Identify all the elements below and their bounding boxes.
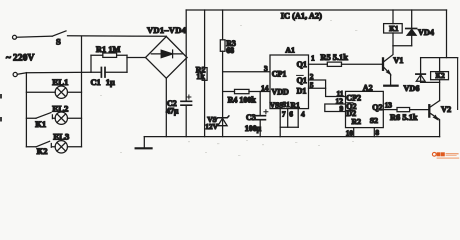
wire: top feed to switch bbox=[17, 36, 53, 37]
svg-text:K1: K1 bbox=[35, 119, 46, 129]
svg-text:A1: A1 bbox=[285, 45, 295, 54]
resistor R6 bbox=[397, 108, 410, 112]
capacitor C1 bbox=[91, 71, 127, 73]
switch S bbox=[52, 31, 66, 36]
node: mains bottom terminal bbox=[13, 72, 17, 76]
wire: right edge stub bbox=[457, 58, 459, 110]
resistor R5 bbox=[327, 62, 341, 66]
svg-text:VD6: VD6 bbox=[404, 84, 420, 93]
wire: R5 to V1 base bbox=[342, 63, 384, 65]
svg-text:13: 13 bbox=[385, 101, 393, 110]
resistor R4 bbox=[223, 91, 270, 93]
wire: Q1 to R5 bbox=[309, 63, 328, 65]
resistor R3 bbox=[222, 10, 224, 118]
lamp EL2 bbox=[55, 112, 67, 124]
svg-text:6: 6 bbox=[289, 109, 293, 118]
pin 7 6 4 stubs bbox=[280, 109, 298, 128]
svg-text:R5 5.1k: R5 5.1k bbox=[320, 53, 348, 62]
svg-text:K2: K2 bbox=[436, 72, 446, 80]
svg-text:CP1: CP1 bbox=[272, 69, 287, 78]
edge smudges bbox=[0, 94, 2, 99]
wire: R6 to V2 base bbox=[410, 109, 430, 111]
resistor R1 bbox=[91, 54, 127, 56]
wire: R1/C1 loop verticals bbox=[91, 55, 127, 72]
bridge rectifier VD1-VD4 bbox=[146, 37, 188, 79]
wire: Q2bar/D2 tie bracket bbox=[325, 104, 346, 112]
wire: rail end down bbox=[446, 10, 448, 58]
svg-text:1k: 1k bbox=[196, 72, 205, 81]
ground bbox=[143, 137, 145, 148]
wire: CP1 input (pin 3) bbox=[223, 71, 270, 73]
wire: lamp right rail bbox=[81, 36, 83, 147]
wire: bridge bottom to ground rail bbox=[165, 78, 167, 136]
svg-text:R4 100k: R4 100k bbox=[228, 96, 257, 105]
svg-text:R2: R2 bbox=[352, 117, 362, 126]
wire: bridge+ vertical bbox=[185, 10, 188, 101]
wire: Q1bar (pin2) to CP2 bbox=[309, 80, 346, 97]
svg-text:9: 9 bbox=[340, 104, 344, 113]
svg-text:VD4: VD4 bbox=[418, 28, 434, 37]
watermark logo bbox=[432, 152, 459, 159]
svg-text:C3: C3 bbox=[246, 113, 256, 122]
svg-text:EL2: EL2 bbox=[52, 104, 69, 114]
zener diode VS 12V bbox=[216, 116, 229, 120]
wire: loop to bridge left corner bbox=[127, 57, 146, 59]
capacitor C2 bbox=[181, 101, 192, 105]
wire: EL2 branch bbox=[26, 117, 81, 119]
svg-text:Q1: Q1 bbox=[297, 76, 307, 85]
wire: bottom ground rail bbox=[144, 136, 439, 138]
op-amp U2: IC A2 box bbox=[346, 91, 384, 127]
svg-text:47μ: 47μ bbox=[166, 106, 179, 115]
svg-text:14: 14 bbox=[261, 83, 269, 92]
transistor V2 bbox=[428, 105, 430, 116]
svg-text:4: 4 bbox=[301, 109, 305, 118]
svg-text:V2: V2 bbox=[441, 105, 451, 114]
svg-text:R6 5.1k: R6 5.1k bbox=[390, 113, 418, 122]
svg-text:S2: S2 bbox=[370, 116, 378, 125]
capacitor C3 bbox=[259, 92, 261, 116]
diode VD6 bbox=[420, 58, 422, 83]
svg-text:68: 68 bbox=[226, 46, 234, 55]
svg-text:8: 8 bbox=[375, 128, 379, 137]
svg-text:IC (A1, A2): IC (A1, A2) bbox=[281, 12, 322, 21]
wire: D1 (pin5) join bbox=[309, 87, 326, 89]
wire: K1/VD4 bottom join bbox=[393, 45, 412, 47]
svg-text:D1: D1 bbox=[297, 87, 307, 96]
svg-text:7: 7 bbox=[282, 109, 286, 118]
wire: EL1 branch bbox=[26, 91, 81, 93]
svg-text:K2: K2 bbox=[37, 146, 48, 156]
lamp EL3 bbox=[55, 141, 67, 153]
op-amp U1: IC A1 box bbox=[270, 55, 309, 109]
svg-text:S1: S1 bbox=[282, 100, 290, 109]
svg-text:Q1: Q1 bbox=[297, 60, 307, 69]
wire: top wire from S to bridge apex bbox=[68, 35, 167, 38]
pin 10 and 8 stubs bbox=[354, 128, 375, 137]
svg-text:A2: A2 bbox=[363, 84, 373, 93]
wire: K2/VD6 top bus bbox=[421, 57, 458, 59]
node: mains top terminal bbox=[13, 35, 17, 39]
svg-text:10: 10 bbox=[346, 128, 354, 137]
svg-text:12V: 12V bbox=[205, 122, 218, 131]
svg-text:V1: V1 bbox=[393, 56, 403, 65]
svg-text:VD1–VD4: VD1–VD4 bbox=[147, 25, 187, 35]
relay coil K1 bbox=[392, 10, 394, 46]
svg-text:Q2: Q2 bbox=[372, 103, 382, 112]
svg-text:EL3: EL3 bbox=[53, 131, 70, 141]
ground (V1 emitter) bbox=[384, 85, 397, 87]
svg-text:~ 220V: ~ 220V bbox=[6, 54, 35, 64]
svg-text:1: 1 bbox=[311, 54, 315, 63]
wire: bottom feed bbox=[17, 72, 91, 74]
relay coil K2 bbox=[439, 58, 441, 101]
transistor V1 bbox=[382, 58, 384, 69]
wire: top +rail bbox=[186, 9, 446, 11]
svg-text:C1 1μ: C1 1μ bbox=[91, 78, 115, 87]
lamp EL1 bbox=[55, 86, 67, 98]
wire: lamp left rail bbox=[25, 73, 27, 147]
svg-text:S: S bbox=[56, 36, 61, 46]
diode VD4 bbox=[411, 10, 413, 46]
svg-text:100μ: 100μ bbox=[245, 124, 262, 133]
svg-text:VDD: VDD bbox=[272, 88, 290, 97]
svg-text:R1 1M: R1 1M bbox=[96, 45, 121, 54]
svg-text:EL1: EL1 bbox=[52, 77, 68, 87]
wire: Q2 (pin13) to R6 bbox=[383, 109, 397, 111]
diode inside bridge bbox=[151, 50, 182, 58]
relay contact K2 bbox=[36, 141, 50, 147]
relay contact K1 bbox=[36, 113, 52, 119]
resistor R2 bbox=[204, 10, 206, 137]
svg-text:3: 3 bbox=[264, 64, 268, 73]
svg-text:K1: K1 bbox=[389, 25, 399, 33]
wire: EL3 branch bbox=[26, 144, 81, 148]
